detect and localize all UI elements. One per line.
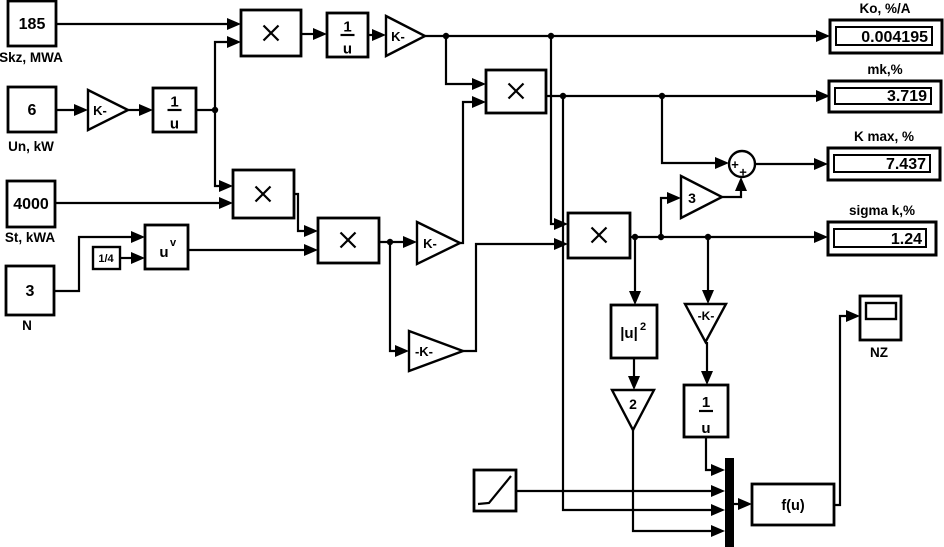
- svg-text:-K-: -K-: [415, 344, 433, 359]
- abs square block |u|^2: [611, 305, 657, 358]
- node B junction on Ko wire: [443, 33, 449, 39]
- wire gain 3 to sum input 2: [722, 177, 747, 197]
- power block u^v: [145, 225, 188, 269]
- mux block: [725, 458, 734, 547]
- svg-text:K-: K-: [391, 29, 405, 44]
- gain -K5 (down): [685, 304, 726, 342]
- svg-text:1: 1: [170, 93, 178, 110]
- product block X2: [233, 170, 294, 218]
- wire mux to fcn f(u): [734, 498, 752, 510]
- wire X1 to reciprocal U2: [301, 28, 327, 40]
- svg-text:Skz, MWA: Skz, MWA: [0, 50, 63, 65]
- scope block NZ: [860, 296, 901, 340]
- wire K2 output to display Ko: [425, 30, 830, 42]
- wire U3 to mux input 1: [706, 437, 725, 476]
- svg-text:1/4: 1/4: [98, 253, 114, 265]
- gain 2 (down): [612, 390, 654, 430]
- svg-text:3.719: 3.719: [887, 88, 927, 105]
- wire X4 output to display mk: [546, 90, 830, 102]
- svg-text:185: 185: [19, 16, 46, 33]
- label N: [22, 318, 32, 333]
- svg-text:-K-: -K-: [698, 309, 715, 323]
- node I junction on sigma wire: [705, 234, 711, 240]
- wire X2 to product X3 input 1: [294, 194, 318, 237]
- svg-text:v: v: [170, 237, 177, 249]
- sum block S1: [729, 151, 755, 180]
- wire gain K1 to reciprocal U1: [128, 104, 153, 116]
- svg-text:u: u: [701, 420, 710, 437]
- wire -K4 up to product X5 input 2: [463, 238, 568, 351]
- wire 1/4 to power block u^v input 2: [120, 252, 145, 264]
- svg-text:1: 1: [702, 394, 710, 411]
- gain K3: [417, 222, 460, 264]
- gain K2: [386, 16, 425, 56]
- wire gain 2 to mux input 4: [633, 430, 725, 537]
- wire 4000 to product X2 input 2: [55, 197, 233, 209]
- svg-text:u: u: [170, 115, 179, 132]
- node E junction on mk wire: [560, 93, 566, 99]
- wire node C down to product X5 input 1: [551, 36, 568, 230]
- wire sum to display K max: [755, 158, 828, 170]
- wire node E down to mux input 3: [563, 96, 725, 516]
- label NZ: [870, 345, 888, 360]
- wire 6 to gain K1: [56, 104, 88, 116]
- wire node B down to product X4 input 1: [446, 36, 486, 90]
- wire -K5 to reciprocal U3: [701, 342, 713, 385]
- svg-text:6: 6: [28, 102, 37, 119]
- svg-text:0.004195: 0.004195: [861, 29, 928, 46]
- constant block 1/4: [93, 247, 120, 269]
- constant block 185 (Skz): [8, 1, 56, 46]
- wire 3 to power block u^v input 1: [54, 231, 145, 291]
- svg-text:3: 3: [688, 190, 696, 206]
- node G junction on sigma wire: [632, 234, 638, 240]
- wire |u|^2 to gain 2: [628, 358, 640, 390]
- node D junction on X3 output: [387, 239, 393, 245]
- wire f(u) to scope NZ: [834, 310, 860, 505]
- gain K1: [88, 90, 128, 130]
- constant block 6 (Un): [8, 87, 56, 132]
- node C junction on Ko wire: [548, 33, 554, 39]
- reciprocal block U2 1/u: [327, 13, 368, 57]
- label St, kWA: [5, 230, 56, 245]
- label Un, kW: [8, 139, 54, 154]
- display Ko value 0.004195: [830, 20, 942, 53]
- ramp block: [474, 470, 516, 511]
- svg-text:Ko, %/A: Ko, %/A: [859, 1, 910, 16]
- wire node A up to product X1 input 2: [215, 36, 241, 110]
- wire X5 output to display sigma k: [630, 231, 828, 243]
- wire node D down to gain -K4: [390, 242, 409, 357]
- reciprocal block U3 1/u: [684, 385, 728, 437]
- node A junction: [212, 107, 218, 113]
- product block X5: [568, 213, 630, 258]
- wire ramp to mux input 2: [516, 485, 725, 497]
- svg-text:sigma k,%: sigma k,%: [849, 203, 915, 218]
- label K max, %: [854, 129, 914, 144]
- svg-text:u: u: [343, 40, 352, 57]
- svg-text:K max, %: K max, %: [854, 129, 914, 144]
- constant block 3 (N): [6, 266, 54, 315]
- wire node I down to gain -K5: [702, 237, 714, 304]
- product block X4: [486, 70, 546, 113]
- svg-text:K-: K-: [93, 103, 107, 118]
- svg-text:mk,%: mk,%: [867, 62, 902, 77]
- wire X3 output to gain K3: [379, 236, 417, 248]
- wire node F down to sum input 1: [662, 96, 729, 169]
- product block X3: [318, 218, 379, 263]
- wire 185 to product X1 input 1: [56, 18, 241, 30]
- display mk value 3.719: [829, 81, 941, 112]
- node H junction on sigma wire: [658, 234, 664, 240]
- constant block 4000 (St): [7, 181, 55, 227]
- svg-text:K-: K-: [423, 236, 437, 251]
- svg-text:2: 2: [640, 321, 646, 333]
- svg-text:Un, kW: Un, kW: [8, 139, 54, 154]
- label sigma k,%: [849, 203, 915, 218]
- wire node G down to abs-square block: [629, 237, 641, 305]
- svg-text:7.437: 7.437: [886, 156, 926, 173]
- svg-text:+: +: [739, 165, 747, 180]
- svg-text:2: 2: [629, 396, 637, 412]
- svg-text:N: N: [22, 318, 32, 333]
- svg-text:4000: 4000: [13, 196, 49, 213]
- svg-text:1: 1: [343, 18, 351, 35]
- gain -K4: [409, 331, 463, 371]
- gain 3: [681, 176, 722, 218]
- label Ko, %/A: [859, 1, 910, 16]
- wire u^v to product X3 input 2: [188, 244, 318, 256]
- fcn block f(u): [752, 484, 834, 525]
- wire U2 to gain K2: [368, 29, 386, 41]
- wire U1 output to node A: [196, 109, 215, 111]
- node F junction on mk wire: [659, 93, 665, 99]
- svg-text:|u|: |u|: [620, 325, 638, 342]
- label mk,%: [867, 62, 902, 77]
- svg-text:3: 3: [26, 283, 35, 300]
- svg-text:f(u): f(u): [781, 498, 805, 514]
- label Skz, MWA: [0, 50, 63, 65]
- display K max value 7.437: [828, 148, 940, 180]
- reciprocal block U1 1/u: [153, 88, 196, 132]
- svg-text:NZ: NZ: [870, 345, 888, 360]
- display sigma k value 1.24: [828, 222, 936, 255]
- wire node A down to product X2 input 1: [215, 110, 233, 192]
- svg-text:St, kWA: St, kWA: [5, 230, 56, 245]
- svg-text:u: u: [159, 244, 168, 261]
- wire node H up to gain 3: [661, 192, 681, 237]
- svg-text:+: +: [731, 157, 739, 172]
- svg-text:1.24: 1.24: [891, 231, 922, 248]
- wire K3 up to product X4 input 2: [460, 96, 486, 243]
- product block X1: [241, 10, 301, 56]
